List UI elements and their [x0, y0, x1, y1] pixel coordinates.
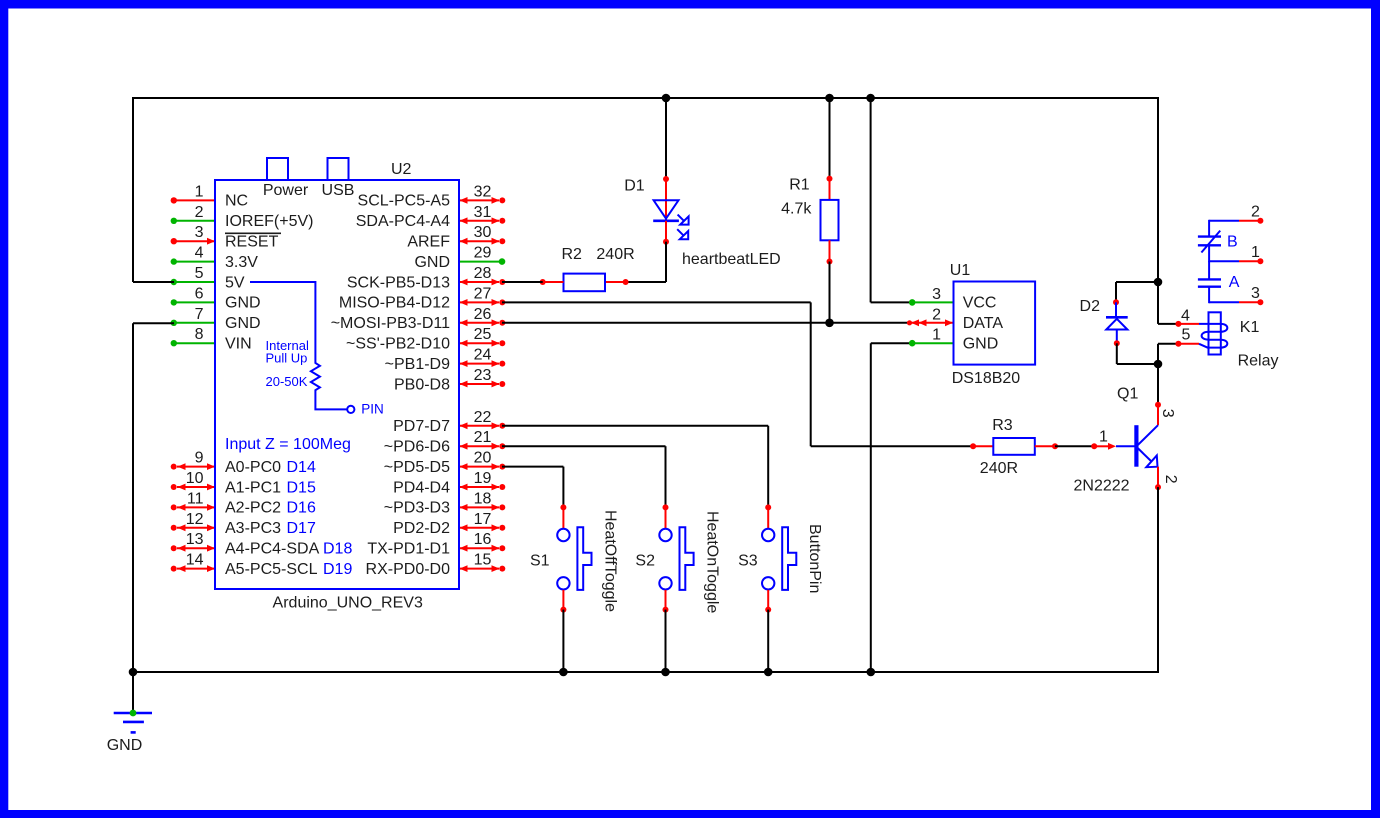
svg-text:PD4-D4: PD4-D4 [393, 479, 450, 496]
svg-text:18: 18 [474, 490, 492, 507]
wire S2 bottom lead [665, 590, 667, 610]
U2 pin 26 ~MOSI-PB3-D11 [459, 322, 499, 324]
relay K1 coil [1199, 323, 1221, 325]
svg-text:7: 7 [195, 306, 204, 323]
svg-text:19: 19 [474, 470, 492, 487]
svg-text:A: A [1229, 274, 1240, 291]
svg-text:Pull Up: Pull Up [266, 351, 308, 366]
U2 pin 23 PB0-D8 [459, 383, 499, 385]
ground [114, 712, 152, 715]
svg-text:~PD3-D3: ~PD3-D3 [384, 500, 450, 517]
svg-text:31: 31 [474, 204, 492, 221]
wire D2 bottom link [1116, 343, 1118, 364]
node Q1 emitter pin 2 [1157, 467, 1159, 487]
resistor R1 [821, 200, 839, 240]
svg-text:PIN: PIN [361, 402, 384, 417]
svg-text:13: 13 [186, 531, 204, 548]
U2 pin 5 5V [174, 281, 215, 283]
node D1 anode [663, 176, 669, 182]
U1 pin 1 GND wire [909, 340, 916, 347]
svg-text:HeatOffToggle: HeatOffToggle [602, 510, 619, 612]
svg-text:MISO-PB4-D12: MISO-PB4-D12 [339, 295, 450, 312]
svg-text:PB0-D8: PB0-D8 [394, 376, 450, 393]
svg-text:Relay: Relay [1238, 352, 1279, 369]
svg-text:AREF: AREF [407, 234, 450, 251]
svg-text:4.7k: 4.7k [781, 201, 812, 218]
junction R1/DATA [825, 319, 834, 328]
svg-text:240R: 240R [596, 246, 634, 263]
junction R1 top [825, 94, 834, 103]
op-amp U1 DS18B20 body [954, 282, 1036, 365]
svg-text:D18: D18 [323, 541, 352, 558]
svg-text:8: 8 [195, 326, 204, 343]
svg-text:USB: USB [322, 182, 355, 199]
U1 pin 3 VCC wire [909, 299, 916, 306]
svg-text:GND: GND [107, 737, 143, 754]
svg-text:2: 2 [1162, 475, 1179, 484]
svg-text:IOREF(+5V): IOREF(+5V) [225, 213, 313, 230]
svg-text:ButtonPin: ButtonPin [806, 524, 823, 593]
junction D2 top [1154, 278, 1163, 287]
svg-text:GND: GND [225, 295, 261, 312]
wire Q1 collector from junction [1157, 364, 1159, 405]
svg-text:GND: GND [414, 254, 450, 271]
wire relay pin 3 [1209, 301, 1239, 303]
U2 pin 30 AREF [459, 240, 499, 242]
U2 pin 14 A5-PC5-SCL D19 [177, 568, 215, 570]
svg-text:240R: 240R [980, 460, 1018, 477]
svg-text:GND: GND [225, 315, 261, 332]
U2 pin 3 RESET [174, 240, 215, 242]
svg-text:Arduino_UNO_REV3: Arduino_UNO_REV3 [273, 595, 423, 612]
svg-text:A4-PC4-SDA: A4-PC4-SDA [225, 541, 320, 558]
node R2 right [623, 279, 629, 285]
wire R1 to DATA net [829, 262, 831, 323]
svg-text:D2: D2 [1080, 298, 1101, 315]
LED D1 [654, 200, 679, 218]
svg-text:S3: S3 [738, 552, 758, 569]
svg-text:4: 4 [195, 245, 204, 262]
svg-text:U2: U2 [391, 161, 412, 178]
U2 pin 13 A4-PC4-SDA D18 [177, 547, 215, 549]
svg-text:1: 1 [1099, 429, 1108, 446]
U2 pin 12 A3-PC3 D17 [177, 527, 215, 529]
U2 USB tab [328, 158, 349, 180]
svg-text:D1: D1 [624, 177, 645, 194]
svg-text:VCC: VCC [963, 295, 997, 312]
svg-text:D15: D15 [287, 479, 316, 496]
diode D2 [1115, 302, 1117, 317]
svg-text:28: 28 [474, 265, 492, 282]
svg-text:2: 2 [195, 204, 204, 221]
wire R2 left lead [543, 281, 564, 283]
U2 pin 24 ~PB1-D9 [459, 363, 499, 365]
svg-text:~PD6-D6: ~PD6-D6 [384, 439, 450, 456]
svg-text:B: B [1227, 234, 1238, 251]
wire S2 top lead [665, 507, 667, 528]
svg-text:32: 32 [474, 183, 492, 200]
svg-text:S1: S1 [530, 552, 550, 569]
svg-text:RX-PD0-D0: RX-PD0-D0 [366, 561, 451, 578]
svg-text:DATA: DATA [963, 315, 1004, 332]
svg-text:22: 22 [474, 409, 492, 426]
svg-text:A3-PC3: A3-PC3 [225, 520, 281, 537]
U2 pin 25 ~SS'-PB2-D10 [459, 342, 499, 344]
switch S2 [659, 529, 671, 541]
svg-text:25: 25 [474, 326, 492, 343]
wire R3 right lead [1035, 445, 1055, 447]
D1 emission arrow 1 [678, 215, 684, 221]
svg-text:A2-PC2: A2-PC2 [225, 500, 281, 517]
svg-text:10: 10 [186, 470, 204, 487]
svg-text:~MOSI-PB3-D11: ~MOSI-PB3-D11 [331, 315, 450, 332]
svg-text:24: 24 [474, 347, 492, 364]
svg-text:29: 29 [474, 245, 492, 262]
svg-text:14: 14 [186, 552, 204, 569]
wire relay pin 5 to collector [1157, 344, 1159, 364]
wire D2 top link [1116, 281, 1158, 283]
node relay pin 5 [1175, 341, 1181, 347]
svg-text:A1-PC1: A1-PC1 [225, 479, 281, 496]
node R1 top lead [827, 176, 833, 182]
svg-text:S2: S2 [635, 552, 655, 569]
svg-text:D17: D17 [287, 520, 316, 537]
junction D1 top [662, 94, 671, 103]
wire Q1 emitter to GND bus [1157, 487, 1159, 673]
node D2 cathode [1113, 299, 1119, 305]
svg-text:A0-PC0: A0-PC0 [225, 459, 281, 476]
svg-text:2: 2 [1251, 204, 1260, 221]
node relay pin 4 [1175, 321, 1181, 327]
svg-text:4: 4 [1181, 307, 1190, 324]
wire pin27 to R3 [502, 301, 811, 303]
svg-text:U1: U1 [950, 262, 971, 279]
U2 pin 7 GND [174, 322, 215, 324]
U2 pin 4 3.3V [174, 261, 215, 263]
svg-text:D16: D16 [287, 500, 316, 517]
resistor internal pull-up 20-50K [250, 282, 347, 409]
svg-text:20: 20 [474, 450, 492, 467]
svg-text:SCL-PC5-A5: SCL-PC5-A5 [358, 193, 451, 210]
wire R3 to Q1 base [1055, 445, 1094, 447]
U2 pin 17 PD2-D2 [459, 527, 499, 529]
svg-text:27: 27 [474, 285, 492, 302]
svg-text:12: 12 [186, 511, 204, 528]
node S3 top junction [765, 504, 771, 510]
junction U1 GND at bus [867, 668, 876, 677]
wire GND stub [132, 672, 134, 713]
node Q1 collector pin 3 [1155, 402, 1161, 408]
U2 pin 2 IOREF(+5V) [174, 220, 215, 222]
U2 Power tab [267, 158, 288, 180]
wire D1 cathode lead [665, 221, 667, 242]
wire S3 top lead [767, 507, 769, 528]
U2 pin 28 SCK-PB5-D13 [459, 281, 499, 283]
svg-text:3: 3 [1159, 409, 1176, 418]
node Q1 base pin 1 [1091, 443, 1097, 449]
wire U1 GND to bus [871, 342, 912, 344]
wire top 5V bus [133, 97, 1158, 99]
svg-text:21: 21 [474, 429, 492, 446]
svg-text:heartbeatLED: heartbeatLED [682, 251, 781, 268]
wire DATA net [502, 322, 910, 324]
wire R1 top lead [829, 179, 831, 200]
junction D2 bottom [1154, 360, 1163, 369]
wire contact B upper [1208, 220, 1210, 237]
svg-text:23: 23 [474, 367, 492, 384]
svg-text:SCK-PB5-D13: SCK-PB5-D13 [347, 274, 450, 291]
svg-text:Input Z = 100Meg: Input Z = 100Meg [225, 436, 351, 453]
svg-text:R1: R1 [789, 177, 810, 194]
svg-text:D14: D14 [287, 459, 316, 476]
U2 pin 1 NC [174, 199, 215, 201]
U2 pin 29 GND [459, 261, 499, 263]
wire right 5V drop [1157, 97, 1159, 282]
svg-text:PD2-D2: PD2-D2 [393, 520, 450, 537]
wire S3 to GND bus [767, 610, 769, 672]
svg-text:9: 9 [195, 450, 204, 467]
relay contact A [1198, 278, 1221, 280]
switch S3 [762, 529, 774, 541]
wire S1 top lead [562, 507, 564, 528]
junction S3 GND [764, 668, 773, 677]
svg-text:K1: K1 [1240, 319, 1260, 336]
U2 pin 21 ~PD6-D6 [459, 445, 499, 447]
svg-text:~SS'-PB2-D10: ~SS'-PB2-D10 [346, 336, 450, 353]
svg-text:6: 6 [195, 285, 204, 302]
relay contact B [1198, 235, 1221, 237]
U2 pin 8 VIN [174, 342, 215, 344]
svg-text:PD7-D7: PD7-D7 [393, 418, 450, 435]
node R3 left [970, 443, 976, 449]
wire relay pin 1 [1209, 260, 1239, 262]
wire D1 from 5V bus [665, 98, 667, 179]
svg-text:1: 1 [195, 183, 204, 200]
svg-text:2: 2 [932, 306, 941, 323]
svg-text:11: 11 [187, 490, 204, 507]
wire R1 from 5V bus [829, 98, 831, 179]
U2 pin 15 RX-PD0-D0 [459, 568, 499, 570]
wire S2 to GND bus [665, 610, 667, 672]
junction S1 GND [559, 668, 568, 677]
svg-text:20-50K: 20-50K [266, 374, 308, 389]
U2 pin 3 RESET overline [225, 232, 281, 234]
svg-text:~PB1-D9: ~PB1-D9 [385, 356, 450, 373]
svg-text:17: 17 [474, 511, 492, 528]
wire R1 bottom lead [829, 240, 831, 261]
wire contact A lower [1208, 287, 1210, 304]
wire R2 right lead [605, 281, 626, 283]
svg-text:15: 15 [474, 552, 492, 569]
svg-text:16: 16 [474, 531, 492, 548]
wire R2 to pin28 [502, 281, 543, 283]
junction S2 GND [661, 668, 670, 677]
svg-text:R3: R3 [992, 417, 1013, 434]
svg-text:3: 3 [195, 224, 204, 241]
svg-text:Q1: Q1 [1117, 385, 1138, 402]
svg-text:3: 3 [932, 286, 941, 303]
transistor Q1 [1137, 425, 1158, 446]
svg-text:GND: GND [963, 336, 999, 353]
svg-text:3: 3 [1251, 285, 1260, 302]
svg-text:D19: D19 [323, 561, 352, 578]
wire S1 bottom lead [562, 590, 564, 610]
U2 pin 20 ~PD5-D5 [459, 466, 499, 468]
svg-text:2N2222: 2N2222 [1074, 477, 1130, 494]
node S2 top junction [663, 504, 669, 510]
U2 pin 10 A1-PC1 D15 [177, 486, 215, 488]
svg-text:RESET: RESET [225, 234, 279, 251]
svg-text:26: 26 [474, 306, 492, 323]
U2 pin 18 ~PD3-D3 [459, 506, 499, 508]
U1 pin 2 DATA wire [907, 320, 912, 325]
svg-text:~PD5-D5: ~PD5-D5 [384, 459, 450, 476]
svg-text:3.3V: 3.3V [225, 254, 258, 271]
resistor R3 [993, 438, 1035, 455]
U2 pin 11 A2-PC2 D16 [177, 506, 215, 508]
svg-text:DS18B20: DS18B20 [952, 370, 1021, 387]
wire R3 left lead [973, 445, 993, 447]
svg-text:A5-PC5-SCL: A5-PC5-SCL [225, 561, 318, 578]
op-amp U2 Arduino body [215, 180, 459, 589]
U2 pin 27 MISO-PB4-D12 [459, 301, 499, 303]
svg-text:5: 5 [195, 265, 204, 282]
resistor R2 [564, 274, 606, 292]
node D2 anode [1114, 340, 1120, 346]
svg-text:TX-PD1-D1: TX-PD1-D1 [367, 541, 450, 558]
svg-text:5: 5 [1182, 327, 1191, 344]
node S1 top junction [560, 504, 566, 510]
wire left 5V drop [132, 97, 134, 282]
svg-text:1: 1 [932, 327, 941, 344]
switch S1 [557, 529, 569, 541]
wire relay pin 2 [1209, 220, 1239, 222]
D1 emission arrow 2 [677, 229, 683, 235]
U2 pin 22 PD7-D7 [459, 425, 499, 427]
wire D1 to R2 [665, 242, 667, 282]
svg-text:VIN: VIN [225, 336, 252, 353]
svg-text:HeatOnToggle: HeatOnToggle [704, 511, 721, 613]
wire S1 to GND bus [562, 610, 564, 672]
wire to relay pin 4 [1157, 282, 1159, 324]
wire contact B lower [1208, 245, 1210, 262]
wire pin20 to S1 [502, 466, 563, 468]
wire D1 anode lead [665, 179, 667, 221]
svg-text:Power: Power [263, 182, 309, 199]
svg-text:30: 30 [474, 224, 492, 241]
svg-text:NC: NC [225, 193, 248, 210]
U2 pin 19 PD4-D4 [459, 486, 499, 488]
U2 pin 6 GND [174, 301, 215, 303]
wire left GND riser [133, 322, 174, 324]
wire pin21 to S2 [502, 445, 666, 447]
U2 pin 9 A0-PC0 D14 [177, 466, 215, 468]
wire S3 bottom lead [767, 590, 769, 610]
junction bottom-left GND [129, 668, 138, 677]
svg-text:1: 1 [1251, 244, 1260, 261]
svg-text:SDA-PC4-A4: SDA-PC4-A4 [356, 213, 450, 230]
wire pin22 to S3 [502, 425, 768, 427]
wire bottom GND bus [133, 671, 1158, 673]
wire VCC drop to U1 [866, 94, 875, 103]
svg-text:R2: R2 [562, 246, 583, 263]
U2 pin 32 SCL-PC5-A5 [459, 199, 499, 201]
U2 pin 16 TX-PD1-D1 [459, 547, 499, 549]
U2 pin 31 SDA-PC4-A4 [459, 220, 499, 222]
wire contact A upper [1208, 261, 1210, 279]
svg-text:5V: 5V [225, 274, 245, 291]
